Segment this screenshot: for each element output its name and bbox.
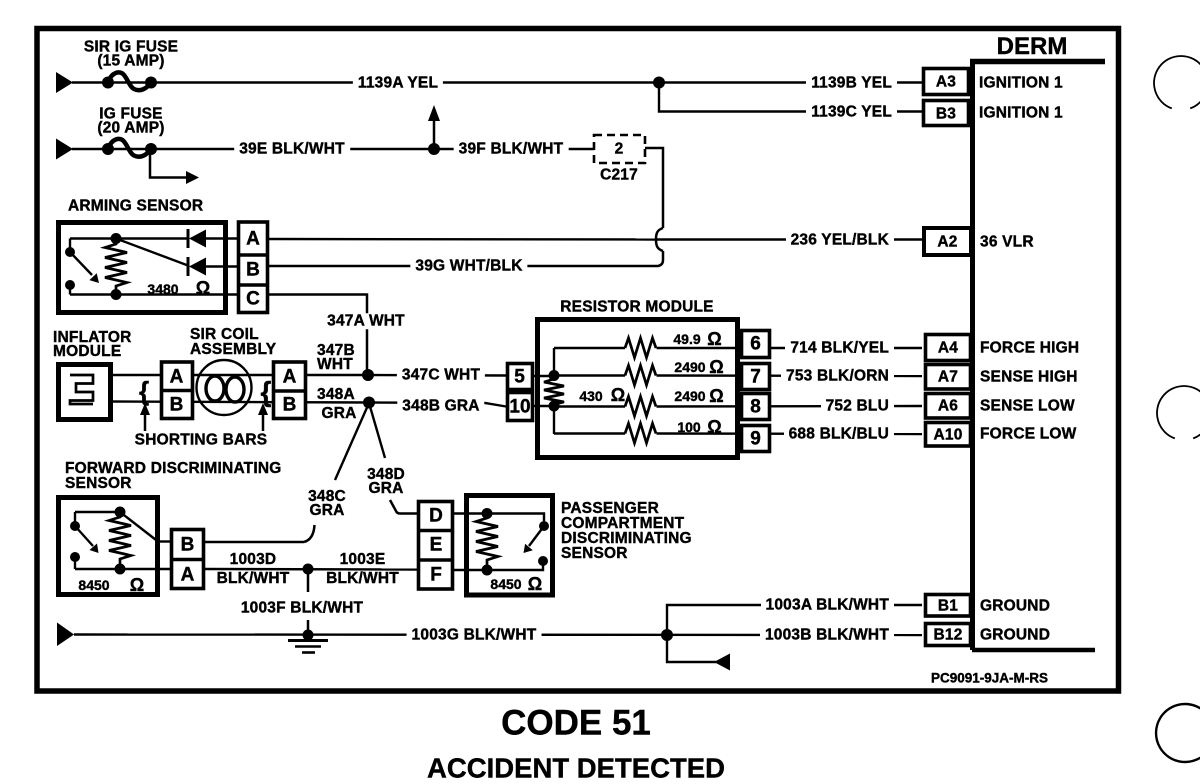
node 1003: [303, 564, 314, 575]
wire stub down with left arrow: [667, 635, 716, 662]
wire 347A WHT from C: [269, 295, 367, 376]
label pin 9: [750, 429, 761, 448]
DERM connector box A6: [926, 394, 971, 419]
diode on wire A: [187, 229, 190, 248]
wire A out to brace: [269, 238, 656, 241]
label pin A (coil right): [283, 368, 297, 387]
resistor 49.9 ohm: [625, 338, 656, 358]
label PC9091-9JA-M-RS: [931, 671, 1048, 685]
connector 8 box: [742, 394, 770, 420]
label pin B3: [936, 106, 956, 122]
resistor module box: [538, 320, 738, 458]
fwd sensor switch: [74, 512, 76, 526]
resistor 8450 ohm (fwd): [115, 507, 126, 518]
DERM connector box A4: [926, 335, 971, 361]
wire F to passenger sensor: [452, 569, 487, 571]
connector stack A/B/C: [239, 222, 268, 313]
wire connector 5: [533, 375, 554, 377]
wire 1003F BLK/WHT: [307, 569, 310, 592]
module left riser bottom: [553, 406, 555, 434]
label 8450 ohm (fwd): [78, 578, 109, 592]
connector 9 box: [742, 426, 770, 452]
fuse IG (20 AMP): [102, 143, 114, 155]
SIR coil assembly circle: [197, 360, 252, 415]
label pin A2: [937, 234, 957, 250]
passenger bottom wire: [487, 561, 543, 570]
fuse SIR IG (15 AMP): [102, 77, 114, 89]
label IGNITION 1 (A3): [979, 75, 1063, 91]
DERM connector box A7: [926, 365, 971, 390]
wire from C217 down: [645, 148, 663, 228]
wire to A6: [657, 405, 923, 408]
coil loop 1: [206, 376, 224, 401]
node 348 junction: [363, 397, 375, 409]
label wire 347B WHT: [317, 344, 355, 371]
punch hole bottom: [1156, 704, 1200, 762]
label wire 1139C YEL: [806, 104, 897, 120]
label pin A3: [936, 74, 956, 90]
wire 1003A BLK/WHT: [667, 605, 922, 635]
label wire 1139A YEL: [353, 75, 443, 91]
wire 348C GRA diagonal: [335, 403, 369, 480]
label SIR COIL ASSEMBLY: [190, 327, 276, 357]
arrow into wire 1003G: [57, 623, 74, 647]
connector stack D/E/F: [419, 502, 453, 590]
wire 1139C YEL: [659, 83, 922, 112]
label 2490 ohm lower: [674, 389, 705, 403]
label IGNITION 1 (B3): [979, 105, 1063, 121]
resistor 430 ohm vertical: [544, 376, 564, 407]
node module row7: [549, 370, 560, 381]
label wire 39F BLK/WHT: [454, 141, 569, 157]
inflator module box: [59, 365, 111, 420]
label SIR IG FUSE: [84, 41, 178, 68]
shorting bar brace left: [139, 378, 149, 404]
passenger top wire: [487, 514, 544, 522]
label PASSENGER COMPARTMENT DISCRIMINATING SENSOR: [561, 501, 692, 561]
module row 7 wire: [554, 374, 625, 376]
label pin A (fwd): [181, 565, 195, 584]
label wire 236 YEL/BLK: [786, 232, 894, 248]
wire 348B GRA: [369, 403, 506, 407]
junction node 39: [428, 143, 440, 155]
wire to A4: [657, 347, 923, 349]
DERM connector box B1: [926, 595, 971, 617]
wire B stub: [158, 540, 174, 542]
module row 6 wire: [554, 347, 625, 349]
label wire 688 BLK/BLU: [784, 426, 894, 442]
connector 5 box: [508, 364, 533, 390]
punch hole top: [1154, 56, 1200, 108]
label FORCE HIGH: [980, 340, 1079, 356]
module row 9 wire: [554, 432, 625, 434]
wire 39G WHT/BLK: [269, 251, 663, 266]
fwd sensor top wire: [75, 511, 120, 513]
label pin E: [430, 536, 443, 555]
label pin 6: [750, 335, 761, 354]
label wire 1003D BLK/WHT: [217, 550, 290, 588]
label 430 ohm: [579, 389, 602, 403]
DERM connector box B12: [926, 624, 971, 646]
label pin 10: [509, 397, 530, 416]
diode on wire B: [187, 257, 190, 276]
label wire 348A GRA: [317, 386, 357, 423]
label pin A10: [933, 427, 962, 443]
label pin A (arming): [246, 230, 260, 249]
label pin B (coil right): [283, 396, 297, 415]
label DERM: [997, 35, 1068, 59]
diagonal wire to diode B: [116, 239, 188, 266]
label pin B12: [933, 627, 962, 643]
label 36 VLR: [980, 234, 1034, 250]
punch hole middle: [1157, 386, 1200, 438]
wire to A10: [657, 432, 923, 435]
label CODE 51: [501, 706, 651, 741]
connector C217 dashed box: [594, 135, 645, 163]
label wire 39G WHT/BLK: [410, 258, 527, 274]
label wire 1003F BLK/WHT: [236, 600, 368, 616]
label wire 1139B YEL: [806, 75, 897, 91]
label pin A (coil left): [170, 368, 184, 387]
label wire 1003E BLK/WHT: [326, 550, 399, 588]
label pin B (fwd): [181, 536, 195, 555]
resistor 3480 ohm (arming): [111, 233, 122, 244]
wire inflator to coil top: [110, 374, 369, 376]
node 1003G junction: [661, 629, 673, 641]
label wire 347A WHT: [322, 313, 410, 329]
module row 8 wire: [554, 405, 625, 407]
label SENSE HIGH: [980, 369, 1078, 385]
fwd sensor bottom wire: [75, 568, 174, 570]
shorting bar arrow 2: [262, 413, 265, 431]
label SENSE LOW: [980, 398, 1075, 414]
label 100 ohm: [677, 420, 700, 434]
wire 1139B YEL: [659, 81, 922, 83]
DERM connector box A10: [926, 423, 971, 447]
wire 1139A YEL: [72, 81, 659, 83]
arming sensor bottom wire: [70, 293, 237, 295]
label wire 714 BLK/YEL: [785, 340, 894, 356]
wire 1003D/1003E BLK/WHT: [205, 568, 422, 571]
label wire 347C WHT: [397, 367, 485, 383]
label 49.9 ohm: [673, 332, 700, 346]
wire 236 YEL/BLK: [656, 238, 922, 240]
up arrow from node 39: [433, 119, 436, 149]
node 347 junction: [362, 369, 374, 381]
branch wire with right arrow under IG fuse: [150, 149, 188, 178]
arming sensor box: [59, 223, 226, 313]
label pin B (coil left): [170, 396, 184, 415]
connector stack A/B left of coil: [162, 362, 193, 419]
wire 348D GRA diagonal: [369, 403, 385, 458]
arrow into wire 1139A: [56, 72, 73, 93]
junction node 1139: [653, 77, 665, 89]
label pin A7: [938, 369, 958, 385]
label IG FUSE: [97, 108, 164, 135]
fwd diagonal to B: [120, 512, 158, 542]
label ACCIDENT DETECTED: [427, 754, 725, 782]
arming sensor top wire: [70, 237, 188, 239]
label GROUND (B12): [980, 627, 1050, 643]
DERM connector box A3: [924, 69, 969, 95]
coil loop 2: [226, 377, 244, 402]
wire 347C WHT: [368, 374, 506, 377]
wire 1003G BLK/WHT: [74, 633, 922, 636]
label wire 1003A BLK/WHT: [761, 597, 894, 613]
label pin F: [430, 566, 442, 585]
shorting bar arrow 1: [144, 413, 147, 431]
inflator element: [70, 375, 93, 404]
resistor 100 ohm: [625, 424, 656, 444]
passenger sensor box: [467, 496, 553, 596]
label wire 753 BLK/ORN: [781, 368, 894, 384]
label pin A6: [938, 398, 958, 414]
connector 6 box: [742, 331, 770, 358]
label FORWARD DISCRIMINATING SENSOR: [65, 461, 282, 491]
label pin 7: [750, 367, 761, 386]
label pin 2 of C217: [615, 141, 624, 157]
wire inflator to coil bottom: [110, 402, 369, 403]
connector stack B/A: [172, 530, 204, 589]
resistor 8450 ohm (passenger): [482, 508, 493, 519]
label FORCE LOW: [980, 426, 1077, 442]
label pin C (arming): [246, 290, 260, 309]
label pin B1: [938, 598, 958, 614]
label wire 1003G BLK/WHT: [407, 627, 542, 643]
label wire 348D GRA: [362, 468, 410, 496]
shorting bar brace right: [261, 378, 272, 406]
wire D to passenger sensor: [452, 512, 487, 514]
DERM connector box B3: [924, 101, 969, 126]
wire to A7: [657, 374, 923, 377]
DERM box bottom edge: [972, 648, 1095, 653]
label wire 1003B BLK/WHT: [760, 627, 894, 643]
label pin D: [429, 507, 443, 526]
connector 7 box: [742, 364, 770, 390]
module left riser top: [553, 348, 555, 376]
ground symbol: [288, 639, 328, 642]
forward discriminating sensor box: [59, 498, 158, 595]
label wire 752 BLU: [821, 398, 894, 414]
resistor 2490 ohm upper: [625, 366, 656, 386]
border frame: [37, 29, 1119, 692]
wire 39E BLK/WHT: [72, 148, 594, 150]
DERM connector box A2: [924, 228, 971, 255]
node on 1003G: [303, 630, 314, 641]
label 3480 ohm: [147, 282, 178, 296]
node module row8: [549, 401, 560, 412]
brace merge node: [656, 228, 663, 251]
label wire 39E BLK/WHT: [234, 141, 350, 157]
arrow into wire 39E: [56, 139, 73, 160]
resistor 2490 ohm lower: [625, 397, 656, 417]
label pin B (arming): [246, 261, 260, 280]
label GROUND (B1): [980, 598, 1050, 614]
label INFLATOR MODULE: [53, 331, 132, 358]
label wire 348B GRA: [397, 398, 484, 414]
passenger switch: [539, 521, 549, 531]
label pin A4: [938, 340, 958, 356]
connector stack A/B right of coil: [274, 362, 306, 419]
arming sensor switch: [69, 239, 71, 253]
label C217: [600, 167, 638, 183]
wire connector 10: [534, 405, 554, 407]
label 8450 ohm (passenger): [490, 577, 521, 591]
label pin 5: [514, 367, 525, 386]
label ARMING SENSOR: [68, 198, 203, 214]
label 2490 ohm upper: [674, 360, 705, 374]
wire 348C from B: [205, 541, 304, 544]
connector 10 box: [508, 393, 533, 421]
DERM box left edge: [970, 61, 975, 650]
label SHORTING BARS: [135, 432, 268, 448]
label wire 348C GRA: [303, 490, 351, 518]
label RESISTOR MODULE: [560, 299, 713, 315]
DERM box top edge: [970, 59, 1105, 65]
label pin 8: [750, 397, 761, 416]
